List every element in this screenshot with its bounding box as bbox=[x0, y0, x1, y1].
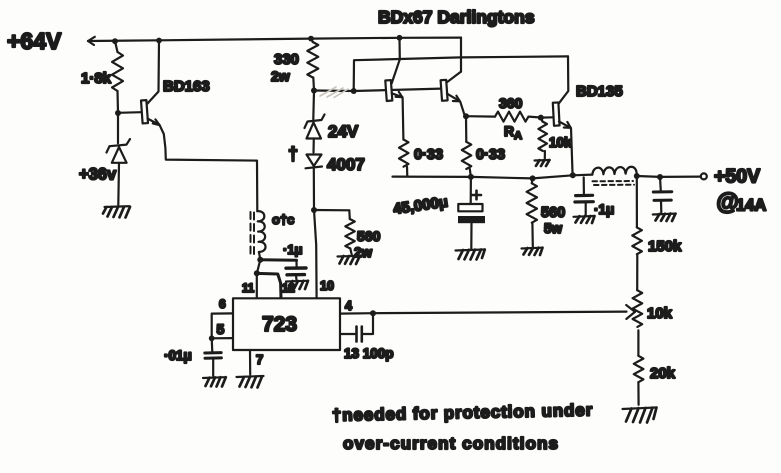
svg-text:560: 560 bbox=[541, 205, 565, 221]
wire BD163 emitter to coil bbox=[160, 125, 258, 211]
resistor 0.33 second bbox=[462, 116, 472, 176]
svg-text:·1μ: ·1μ bbox=[594, 202, 614, 217]
wire pin 4 to divider wiper bbox=[340, 312, 627, 314]
svg-text:0·33: 0·33 bbox=[476, 147, 505, 163]
capacitor .01u bbox=[205, 338, 222, 376]
ground G11 under 560 2W bbox=[338, 256, 360, 264]
svg-text:BD163: BD163 bbox=[163, 78, 210, 95]
svg-text:2w: 2w bbox=[271, 68, 290, 84]
resistor 560 5W bbox=[527, 178, 537, 246]
wire rail drop to darlington 1 collector bbox=[398, 38, 400, 60]
node pin 4 bbox=[370, 310, 376, 316]
wire rail corner down at right bbox=[460, 38, 462, 72]
node rail junction at 330 resistor bbox=[308, 36, 314, 42]
node darlington 2 emitter bbox=[463, 113, 469, 119]
wire base node up and across bbox=[354, 57, 461, 91]
svg-text:BDx67 Darlingtons: BDx67 Darlingtons bbox=[378, 7, 535, 27]
capacitor .1u output bbox=[575, 177, 593, 215]
node BD163 base node bbox=[115, 110, 121, 116]
svg-text:+50V: +50V bbox=[714, 166, 760, 188]
diode 4007 bbox=[306, 155, 323, 210]
op-amp U1 regulator 723 bbox=[233, 298, 340, 350]
svg-text:560: 560 bbox=[357, 228, 381, 244]
transistor Q1 BD163 bbox=[118, 41, 160, 126]
node pin5 corner bbox=[209, 335, 215, 341]
svg-text:45,000μ: 45,000μ bbox=[392, 193, 449, 217]
svg-text:2w: 2w bbox=[354, 245, 373, 260]
resistor 360 RA bbox=[466, 112, 541, 122]
svg-text:6: 6 bbox=[219, 297, 226, 311]
node 330 / zener / base node bbox=[311, 88, 317, 94]
wire pin 11 bbox=[257, 260, 261, 299]
pencil smudge near base wire bbox=[320, 87, 348, 98]
svg-text:13 100p: 13 100p bbox=[344, 346, 394, 361]
capacitor output second bbox=[653, 177, 672, 213]
wire coil bottom to .1u cap bbox=[260, 258, 296, 262]
potentiometer 10k bbox=[626, 290, 642, 356]
svg-text:14A: 14A bbox=[736, 197, 766, 215]
svg-text:360: 360 bbox=[499, 95, 523, 111]
svg-text:10k: 10k bbox=[549, 135, 572, 150]
node rail junction at 1.8k bbox=[112, 38, 118, 44]
capacitor 100p pin13 bbox=[340, 313, 373, 341]
resistor 560 2W bbox=[345, 210, 355, 255]
node rail at BD135 emitter bbox=[570, 172, 576, 178]
svg-text:12: 12 bbox=[282, 283, 295, 295]
wire pin 7 bbox=[249, 350, 251, 375]
svg-text:4007: 4007 bbox=[327, 155, 365, 174]
svg-text:5: 5 bbox=[217, 321, 225, 337]
node rail at 45000u bbox=[468, 174, 474, 180]
ground G8 under .01u bbox=[203, 377, 226, 386]
svg-text:†: † bbox=[288, 144, 298, 164]
svg-text:150k: 150k bbox=[648, 238, 682, 255]
svg-text:BD135: BD135 bbox=[576, 83, 623, 100]
ground G7 under 20k bbox=[623, 408, 657, 423]
transistor Q2 BDX67 darlington 1 bbox=[385, 59, 403, 139]
svg-text:o†c: o†c bbox=[272, 212, 294, 227]
node rail at choke right bbox=[634, 173, 640, 179]
node rail junction at darlington collector bbox=[397, 35, 403, 41]
node rail junction at BD163 collector bbox=[156, 38, 162, 44]
resistor 20k bbox=[634, 356, 644, 405]
svg-text:11: 11 bbox=[242, 283, 255, 295]
node coil bottom bbox=[257, 257, 263, 263]
svg-text:†needed for protection under: †needed for protection under bbox=[332, 401, 594, 425]
ground G1 under 36V zener bbox=[103, 206, 130, 217]
inductor output filter choke bbox=[592, 167, 636, 185]
output terminal circle bbox=[701, 173, 707, 179]
wire base node to darlington bases bbox=[314, 89, 441, 91]
ground G9 under pin 7 bbox=[237, 376, 264, 388]
ground G6 under 10k bbox=[535, 160, 550, 166]
resistor 1.8k bbox=[112, 41, 123, 112]
wire output rail bbox=[393, 175, 593, 179]
wire 4007 node down to pin 10 bbox=[314, 210, 317, 298]
capacitor .1u at coil bbox=[286, 260, 306, 279]
resistor 150k bbox=[632, 176, 642, 290]
svg-text:330: 330 bbox=[274, 51, 299, 68]
node pin11 tee bbox=[254, 270, 260, 276]
node BD135 base bbox=[538, 115, 544, 121]
zener diode 24V bbox=[305, 91, 325, 153]
node 4007 output node bbox=[311, 207, 317, 213]
resistor 10k at BD135 base bbox=[538, 118, 547, 159]
wire +64V top rail bbox=[88, 37, 461, 45]
svg-text:+36v: +36v bbox=[79, 166, 117, 184]
node rail at 560 5W bbox=[530, 175, 536, 181]
svg-text:723: 723 bbox=[262, 313, 297, 336]
svg-text:RA: RA bbox=[504, 123, 522, 142]
capacitor 45000u electrolytic bbox=[458, 177, 485, 249]
resistor 0.33 first bbox=[399, 140, 409, 177]
wire node to 560 2W bbox=[314, 209, 349, 212]
wire across to BD135 collector bbox=[461, 56, 568, 57]
ground G2 under 45000u bbox=[456, 250, 485, 260]
svg-text:10: 10 bbox=[320, 279, 334, 293]
ground G5 under output cap bbox=[653, 214, 676, 221]
svg-text:10k: 10k bbox=[647, 305, 673, 322]
svg-text:4: 4 bbox=[345, 299, 352, 313]
svg-text:7: 7 bbox=[256, 352, 263, 367]
transistor Q3 BDX67 darlington 2 bbox=[441, 72, 465, 116]
wire pin 12 bbox=[257, 273, 281, 298]
ground G4 under .1u output bbox=[574, 216, 595, 223]
svg-text:1·8k: 1·8k bbox=[81, 70, 112, 87]
node base tee bbox=[351, 88, 357, 94]
svg-text:0·33: 0·33 bbox=[414, 147, 443, 163]
svg-text:24V: 24V bbox=[328, 122, 359, 141]
zener diode +36V bbox=[107, 113, 131, 205]
svg-text:20k: 20k bbox=[650, 365, 676, 382]
wire pin 5/6 loop bbox=[212, 313, 233, 338]
svg-text:·1μ: ·1μ bbox=[283, 242, 303, 257]
ground G3 under 560 5W bbox=[522, 248, 543, 255]
svg-text:over-current conditions: over-current conditions bbox=[343, 434, 559, 453]
inductor o/c coil bbox=[251, 211, 266, 259]
transistor Q4 BD135 bbox=[541, 56, 573, 175]
ground G10 under .1u coil cap bbox=[286, 281, 308, 289]
svg-text:·01μ: ·01μ bbox=[164, 348, 192, 363]
svg-text:5w: 5w bbox=[544, 221, 563, 236]
svg-text:+64V: +64V bbox=[7, 28, 62, 54]
node rail at output cap bbox=[657, 174, 663, 180]
wire rail after choke bbox=[637, 175, 701, 178]
resistor 330 2W bbox=[307, 39, 318, 90]
